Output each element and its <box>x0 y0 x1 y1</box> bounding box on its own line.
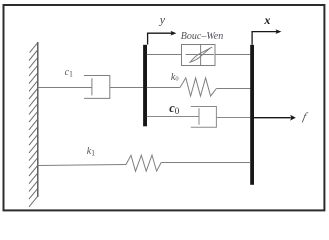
node bar y <box>143 45 147 127</box>
spring K0 <box>180 78 216 96</box>
damper C1 <box>84 76 110 99</box>
wire damper c0 to bar x <box>216 117 250 119</box>
wall <box>37 42 39 197</box>
wire Bouc-Wen box to bar x <box>215 54 250 56</box>
wire spring k0 to bar x <box>216 88 250 90</box>
svg-text:k1: k1 <box>87 146 95 157</box>
arrow y <box>148 31 177 45</box>
wall hatching <box>29 43 38 207</box>
svg-text:Bouc–Wen: Bouc–Wen <box>181 31 223 42</box>
svg-text:y: y <box>159 12 166 26</box>
damper C0 <box>191 107 217 128</box>
wire bar y to Bouc-Wen box <box>147 54 182 56</box>
wire bar y to damper c0 piston <box>147 116 199 118</box>
spring K1 <box>126 155 161 171</box>
wire wall to damper c1 piston <box>38 87 92 89</box>
node bar x <box>250 45 254 185</box>
arrow f <box>253 115 296 121</box>
Bouc-Wen element U1 <box>182 45 216 66</box>
wire spring k1 to bar x <box>161 162 250 164</box>
arrow x <box>252 29 281 44</box>
svg-text:x: x <box>263 13 270 27</box>
wire wall to spring k1 <box>38 165 126 166</box>
wire damper c1 to bar y <box>110 87 144 89</box>
wire bar y to spring k0 <box>147 87 180 89</box>
